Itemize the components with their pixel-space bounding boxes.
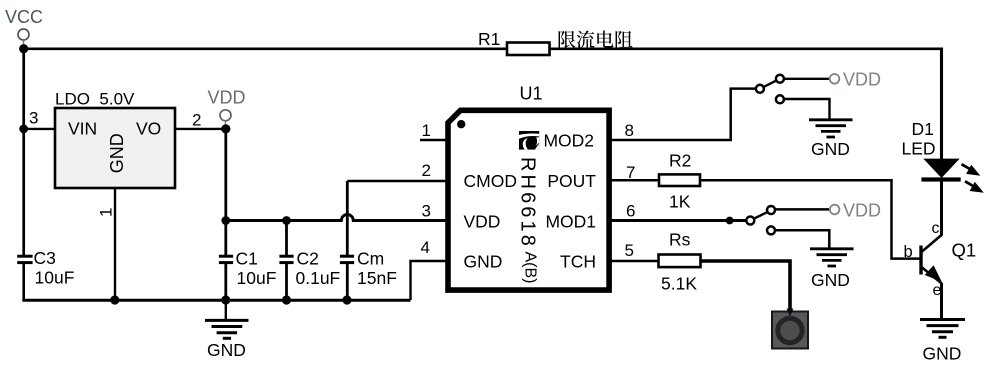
- svg-text:R2: R2: [669, 151, 691, 171]
- wire left rail below C3: [22, 263, 25, 301]
- svg-text:1K: 1K: [669, 192, 691, 212]
- switch S2 lever: [754, 212, 767, 218]
- wire pin6 to switch2: [611, 219, 747, 222]
- resistor R1: [507, 43, 550, 56]
- svg-text:8: 8: [625, 121, 634, 140]
- svg-text:5: 5: [625, 241, 634, 260]
- svg-text:VDD: VDD: [843, 70, 881, 90]
- svg-text:LED: LED: [902, 139, 936, 159]
- wire LDO VO to VDD node: [175, 128, 226, 130]
- node VCC: [5, 7, 43, 44]
- LED D1 symbol: [921, 159, 983, 193]
- svg-text:MOD2: MOD2: [543, 131, 594, 151]
- svg-text:6: 6: [626, 202, 635, 221]
- svg-text:5.1K: 5.1K: [661, 274, 697, 294]
- chip logo: [519, 131, 539, 150]
- junction LDO pin3 dot: [19, 124, 28, 133]
- svg-text:C3: C3: [34, 248, 56, 268]
- ground Q1: [920, 320, 965, 364]
- svg-text:R1: R1: [478, 29, 500, 49]
- transistor Q1: [904, 220, 977, 299]
- svg-text:2: 2: [422, 161, 431, 180]
- wire chip pin4 to bus: [411, 261, 447, 300]
- svg-text:1: 1: [97, 208, 116, 217]
- capacitor C2: [279, 249, 340, 289]
- svg-text:10uF: 10uF: [35, 268, 75, 288]
- svg-text:VCC: VCC: [5, 7, 43, 27]
- wire C2 bottom: [285, 263, 288, 300]
- svg-text:VDD: VDD: [464, 212, 501, 232]
- svg-text:10uF: 10uF: [237, 268, 277, 288]
- label 限流电阻: [559, 31, 576, 48]
- svg-text:b: b: [904, 243, 913, 261]
- switch S1 pole: [756, 85, 764, 93]
- ground main: [205, 300, 249, 360]
- svg-text:2: 2: [192, 111, 201, 130]
- svg-text:Q1: Q1: [952, 240, 977, 261]
- svg-text:4: 4: [421, 238, 430, 257]
- junction VDD dot: [221, 124, 230, 133]
- junction bus C1: [221, 295, 230, 304]
- svg-text:c: c: [932, 220, 940, 237]
- wire top rail VCC to R1: [24, 47, 507, 50]
- svg-text:MOD1: MOD1: [545, 212, 596, 232]
- svg-text:GND: GND: [107, 133, 127, 173]
- svg-text:15nF: 15nF: [357, 268, 397, 288]
- svg-text:1: 1: [422, 121, 431, 140]
- svg-text:U1: U1: [520, 84, 543, 104]
- wire pin8 to switch1: [611, 89, 756, 140]
- svg-text:GND: GND: [207, 340, 246, 360]
- capacitor Cm: [340, 249, 397, 289]
- wire Rs to touch pad: [701, 261, 791, 312]
- svg-text:GND: GND: [811, 139, 850, 159]
- svg-text:CMOD: CMOD: [464, 171, 517, 191]
- svg-text:RH6618: RH6618: [517, 157, 539, 249]
- svg-text:LDO 5.0V: LDO 5.0V: [55, 90, 135, 109]
- junction VDD wire dot: [221, 216, 230, 225]
- wire VDD to chip pin3 with hop: [226, 215, 446, 221]
- wire R1 to right corner: [550, 47, 943, 50]
- wire pin5 to Rs: [611, 260, 659, 262]
- svg-text:VO: VO: [136, 119, 161, 139]
- wire ground bus: [22, 299, 410, 302]
- svg-text:GND: GND: [464, 252, 503, 272]
- svg-text:GND: GND: [811, 270, 850, 290]
- svg-text:3: 3: [29, 109, 38, 128]
- capacitor C1: [219, 249, 276, 289]
- switch S2 pole: [746, 217, 754, 225]
- junction bus pin1: [110, 295, 119, 304]
- pin 1 stub: [420, 139, 446, 141]
- junction C2 top dot: [282, 216, 291, 225]
- wire pin7 to R2: [611, 179, 659, 182]
- wire right rail down to LED: [940, 48, 943, 160]
- switch S1 contact upper: [776, 75, 784, 83]
- wire S2 lower to ground: [775, 230, 829, 248]
- svg-text:VDD: VDD: [843, 201, 881, 221]
- svg-text:VDD: VDD: [208, 88, 246, 108]
- svg-text:C2: C2: [297, 249, 319, 269]
- node VDD (LDO output): [208, 88, 246, 125]
- svg-text:Rs: Rs: [669, 230, 691, 250]
- wire Cm vertical from CMOD wire: [346, 181, 349, 256]
- svg-text:C1: C1: [236, 249, 258, 269]
- node VDD (S2): [830, 201, 881, 221]
- wire S2 upper to VDD: [775, 208, 830, 211]
- ground S2: [810, 249, 854, 290]
- wire S1 upper to VDD: [785, 78, 830, 80]
- wire left rail down: [22, 49, 25, 256]
- pin1 dot inside chip: [457, 120, 465, 128]
- IC U1 body: [448, 110, 609, 290]
- svg-text:VIN: VIN: [68, 119, 97, 139]
- svg-text:GND: GND: [923, 344, 962, 364]
- touch pad: [772, 309, 808, 349]
- node VDD (S1): [830, 70, 881, 90]
- wire S1 lower to ground: [785, 99, 830, 119]
- wire LDO pin1 down: [114, 188, 116, 300]
- switch S2 contact lower: [767, 226, 775, 234]
- svg-text:TCH: TCH: [560, 252, 596, 272]
- wire Cm bottom: [346, 263, 349, 300]
- switch S2 contact upper: [767, 206, 775, 214]
- svg-text:D1: D1: [912, 119, 934, 139]
- svg-text:A(B): A(B): [522, 252, 539, 284]
- svg-text:POUT: POUT: [547, 171, 596, 191]
- wire Q1 emitter to ground: [940, 283, 943, 319]
- junction VCC dot: [19, 44, 28, 53]
- capacitor C3: [17, 248, 74, 288]
- switch S1 contact lower: [776, 95, 784, 103]
- junction pin6 dot: [726, 217, 734, 225]
- ground S1: [809, 120, 853, 159]
- resistor Rs: [659, 255, 701, 268]
- switch S1 lever: [764, 81, 777, 87]
- wire VDD rail down to C1: [224, 129, 227, 256]
- junction bus C2: [282, 295, 291, 304]
- wire to LDO VIN: [24, 128, 55, 130]
- wire CMOD to chip pin2: [347, 180, 446, 182]
- wire R2 to Q1 base: [700, 180, 920, 258]
- regulator LDO box: [55, 108, 175, 188]
- wire below C1: [224, 263, 227, 301]
- svg-text:3: 3: [422, 202, 431, 221]
- resistor R2: [659, 174, 700, 186]
- svg-text:0.1uF: 0.1uF: [296, 268, 341, 288]
- wire C2 top: [285, 219, 288, 256]
- svg-text:Cm: Cm: [357, 249, 384, 269]
- wire LED to Q1 collector: [940, 180, 943, 236]
- junction bus Cm: [342, 295, 351, 304]
